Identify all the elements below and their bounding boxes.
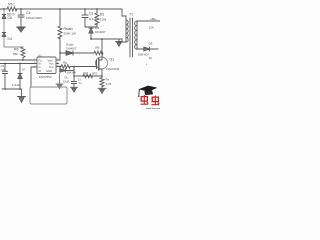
- svg-text:56k: 56k: [13, 52, 18, 56]
- svg-text:0.25: 0.25: [106, 82, 112, 86]
- resistor Rs2 vertical: [95, 9, 99, 25]
- svg-text:Rstart: Rstart: [64, 27, 73, 31]
- wire vref pin: [56, 63, 59, 65]
- svg-text:D9: D9: [149, 41, 153, 45]
- svg-text:D7: D7: [22, 68, 26, 72]
- svg-text:www.dzsc.com: www.dzsc.com: [146, 108, 160, 110]
- transformer T1 primary: [126, 20, 128, 42]
- svg-text:Ct: Ct: [78, 77, 81, 81]
- svg-text:D4: D4: [8, 37, 12, 41]
- svg-text:FAN7554: FAN7554: [39, 75, 52, 79]
- resistor R6 vertical: [21, 47, 25, 60]
- resistor Rg: [61, 65, 70, 69]
- resistor Rstart vertical: [58, 26, 62, 39]
- diode D5: [2, 15, 6, 19]
- resistor Rs vertical: [100, 76, 104, 88]
- logo red glyph 2: [151, 96, 159, 106]
- svg-text:Out: Out: [49, 65, 54, 69]
- junction dots: [3, 8, 103, 90]
- diode D4: [2, 33, 6, 37]
- wire drain rail to primary: [91, 39, 126, 42]
- svg-text:FQA6N40: FQA6N40: [106, 67, 120, 71]
- resistor Rsf: [83, 74, 92, 78]
- logo graduation cap: [138, 86, 157, 97]
- svg-text:Cs: Cs: [89, 12, 93, 16]
- wire sense branch: [73, 67, 75, 88]
- svg-text:100uF/400V: 100uF/400V: [26, 16, 42, 20]
- wire C4 branch: [20, 9, 22, 27]
- svg-text:Vref: Vref: [48, 58, 53, 62]
- svg-text:1N4007: 1N4007: [66, 47, 77, 51]
- text labels: [1, 3, 157, 87]
- IC pin labels: [39, 58, 55, 79]
- svg-text:U1: U1: [38, 54, 42, 58]
- wire top AC rail: [0, 9, 126, 20]
- box shield outline: [30, 87, 67, 104]
- wire secondary top out: [137, 20, 160, 22]
- wire gate diode loop: [60, 67, 74, 71]
- diode D7: [18, 74, 22, 79]
- transformer T1 secondary: [135, 21, 137, 49]
- svg-text:Rd: Rd: [96, 45, 100, 49]
- ground bottom left: [18, 97, 26, 103]
- capacitor Ct plates: [72, 82, 77, 84]
- wire secondary bottom out: [137, 48, 158, 50]
- svg-text:C4: C4: [26, 11, 30, 15]
- resistor NTC: [7, 7, 17, 11]
- transistor Q1 envelope circle: [96, 57, 108, 69]
- wire aux vcc: [60, 52, 102, 54]
- wire bottom left rail: [2, 89, 22, 97]
- svg-text:10k: 10k: [149, 26, 154, 30]
- svg-text:UF4007: UF4007: [95, 30, 106, 34]
- svg-text:D06-60V: D06-60V: [138, 52, 149, 56]
- ground Ct: [71, 87, 78, 92]
- diode Ds UF4007: [89, 28, 93, 33]
- ground C4: [17, 27, 26, 32]
- svg-text:T1: T1: [129, 13, 133, 17]
- logo red glyph 1: [140, 95, 148, 105]
- svg-text:0.1uF: 0.1uF: [89, 17, 97, 21]
- diode 1N4007: [66, 51, 73, 55]
- wire sense to source: [74, 75, 102, 77]
- ground vref cap: [56, 84, 63, 89]
- transformer core: [130, 18, 133, 57]
- svg-text:Fb: Fb: [39, 58, 43, 62]
- IC wires left pins: [0, 60, 37, 87]
- capacitor C4 plates: [18, 15, 24, 17]
- svg-text:110k: 110k: [100, 18, 107, 22]
- wire input diode branch: [19, 64, 21, 90]
- diode 1N4148: [60, 69, 66, 73]
- svg-text:HB+: HB+: [151, 17, 157, 21]
- wire input cap branch: [4, 64, 6, 90]
- svg-text:1uF: 1uF: [1, 68, 6, 72]
- svg-text:Rs: Rs: [100, 13, 104, 17]
- svg-text:NTC: NTC: [8, 3, 16, 7]
- wire out pin to gate: [56, 66, 97, 68]
- svg-text:.1u: .1u: [78, 81, 82, 85]
- svg-text:D5: D5: [8, 16, 12, 20]
- svg-text:R6: R6: [14, 48, 18, 52]
- svg-text:Q1: Q1: [110, 58, 115, 62]
- svg-text:GND: GND: [46, 69, 52, 73]
- transistor Q1 mosfet: [96, 60, 98, 69]
- svg-text:Rg: Rg: [63, 61, 67, 65]
- IC pin numbers: [34, 59, 148, 68]
- svg-text:Vcc: Vcc: [49, 62, 54, 66]
- svg-text:1N4148: 1N4148: [67, 71, 77, 75]
- wire Rstart branch: [56, 9, 60, 60]
- svg-text:200K 1W: 200K 1W: [64, 32, 77, 36]
- wire vref cap gnd: [59, 74, 61, 85]
- wire snubber cap branch: [85, 9, 97, 27]
- capacitor Cs plates: [82, 15, 88, 18]
- diode D9 output: [144, 47, 150, 51]
- resistor Rd: [94, 51, 103, 55]
- svg-text:Cb: Cb: [64, 76, 68, 80]
- svg-text:Rs: Rs: [106, 78, 110, 82]
- svg-text:2R2: 2R2: [92, 72, 98, 76]
- svg-text:Rsf: Rsf: [84, 71, 88, 75]
- svg-text:3A: 3A: [149, 56, 153, 60]
- wire D5/D4 branch: [4, 9, 23, 47]
- wire snubber diode drop: [90, 27, 92, 39]
- ground Q1 source: [98, 88, 106, 93]
- capacitor C9 plates: [3, 71, 8, 73]
- svg-text:10uF: 10uF: [63, 80, 69, 84]
- svg-text:1.5nF: 1.5nF: [12, 83, 20, 87]
- op-amp U1 IC box: [37, 57, 56, 74]
- svg-text:Ri: Ri: [39, 69, 42, 73]
